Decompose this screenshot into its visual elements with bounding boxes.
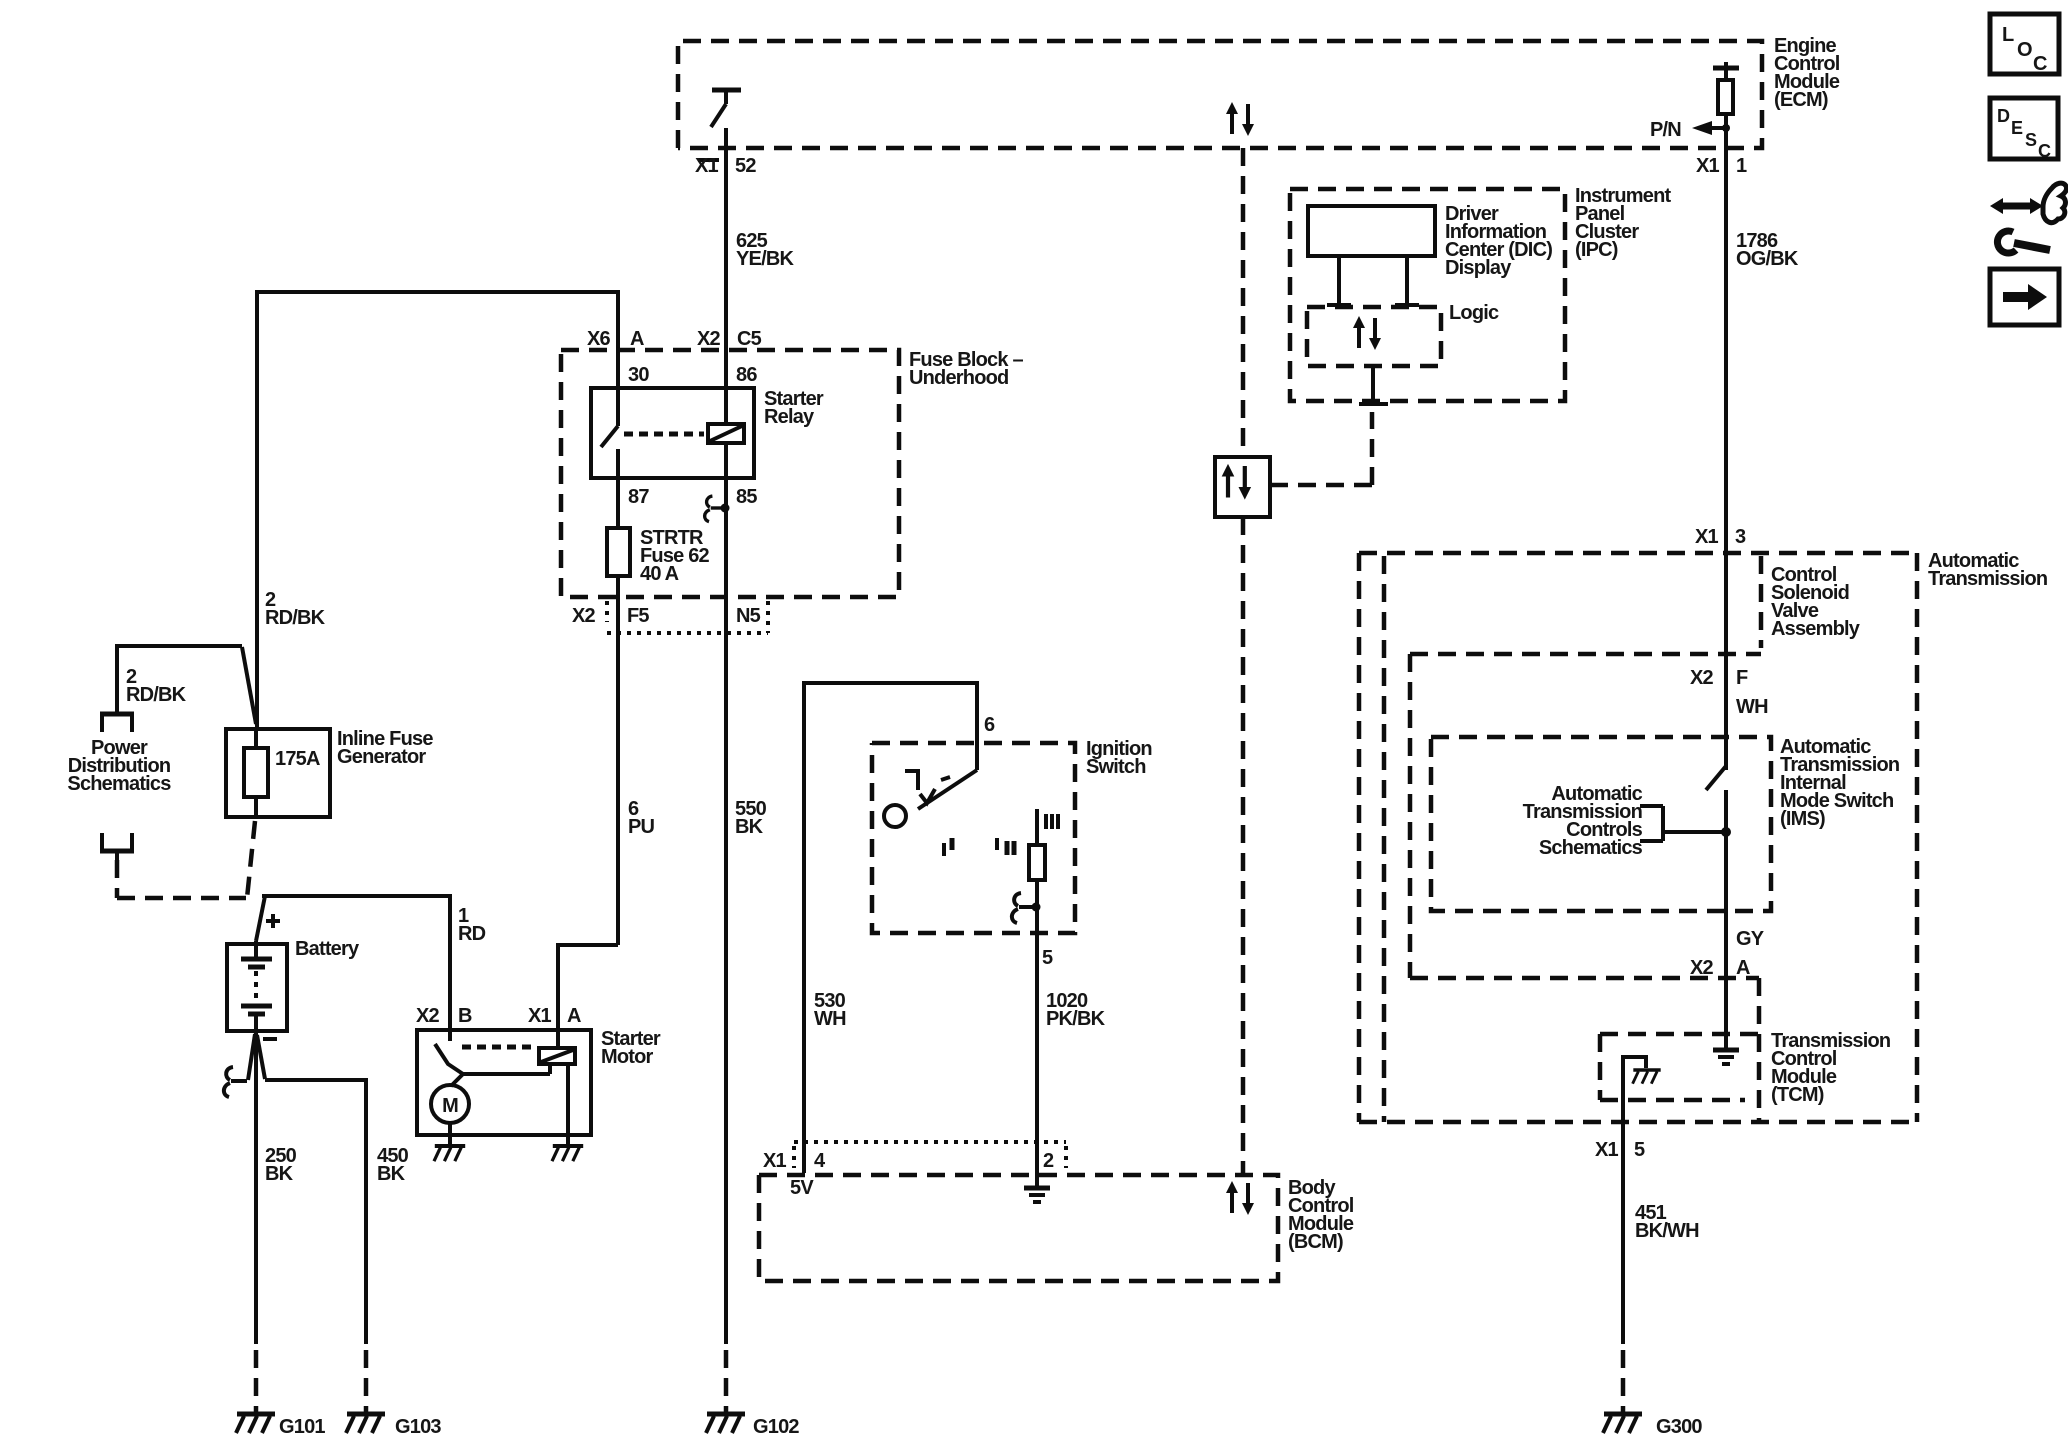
Ignition Switch label [1086, 738, 1152, 778]
svg-text:C: C [2033, 53, 2047, 75]
wire relay 85 to N5 [724, 508, 728, 633]
svg-text:(TCM): (TCM) [1771, 1084, 1824, 1106]
svg-text:M: M [442, 1095, 458, 1117]
starter solenoid contact switch [435, 1030, 463, 1074]
svg-text:Schematics: Schematics [67, 773, 171, 795]
diagnostic tool icon [1990, 183, 2067, 253]
svg-text:B: B [458, 1005, 472, 1027]
svg-text:Schematics: Schematics [1539, 837, 1643, 859]
svg-text:A: A [567, 1005, 581, 1027]
inline fuse generator box [226, 729, 330, 817]
DIC label [1445, 203, 1552, 279]
ECM label [1774, 35, 1840, 111]
wire 451 BK/WH TCM to G300 [1621, 1122, 1625, 1412]
wire 2 RD/BK feed (battery to fuse block X6-A) [257, 292, 618, 729]
serial data dashed branch to IPC logic [1270, 412, 1372, 485]
svg-text:52: 52 [735, 155, 756, 177]
splice curl in ignition switch [1012, 893, 1035, 923]
svg-text:(IMS): (IMS) [1780, 808, 1825, 830]
svg-text:X1: X1 [1696, 155, 1720, 177]
serial data arrows inside logic [1353, 316, 1381, 350]
ground G102 [706, 1414, 799, 1438]
node X2 A connector labels [1690, 957, 1750, 979]
node X1 A connector labels [528, 1005, 581, 1027]
DIC display box [1308, 206, 1435, 256]
battery negative split junction [248, 1034, 265, 1080]
starter solenoid ground [552, 1064, 583, 1161]
svg-text:1: 1 [1736, 155, 1747, 177]
svg-text:(ECM): (ECM) [1774, 89, 1828, 111]
svg-text:X2: X2 [572, 605, 596, 627]
ignition switch arm [918, 770, 977, 809]
svg-text:D: D [1997, 106, 2010, 126]
svg-text:GY: GY [1736, 928, 1765, 950]
svg-text:Display: Display [1445, 257, 1512, 279]
svg-text:L: L [2002, 24, 2014, 46]
starter motor box [417, 1030, 591, 1135]
Fuse Block label [909, 349, 1023, 389]
battery [227, 941, 287, 1031]
ignition contact resistor [1029, 809, 1045, 1187]
svg-text:RD: RD [458, 923, 486, 945]
svg-text:F5: F5 [627, 605, 649, 627]
flag wire label 2 RD/BK [126, 666, 187, 706]
svg-text:RD/BK: RD/BK [126, 684, 187, 706]
wire label 530 WH [814, 990, 846, 1030]
wire label 625 YE/BK [736, 230, 794, 270]
node X1 3 connector labels [1695, 526, 1746, 548]
svg-text:X1: X1 [1595, 1139, 1619, 1161]
wire label 6 PU [628, 798, 655, 838]
splice curl at relay pin 85 [705, 496, 725, 521]
wire 625 YE/BK from ECM switch to relay coil [724, 128, 728, 424]
Starter Relay label [764, 388, 824, 428]
DIC display legs [1327, 256, 1419, 305]
Automatic Transmission label [1928, 550, 2047, 590]
splice curl at battery negative [224, 1067, 247, 1097]
svg-text:OG/BK: OG/BK [1736, 248, 1799, 270]
BCM label [1288, 1177, 1354, 1253]
svg-text:Switch: Switch [1086, 756, 1146, 778]
connector X2 F5 N5 labels [572, 605, 761, 627]
Inline Fuse Generator label [337, 728, 433, 768]
connector tick X1 52 [698, 158, 719, 162]
svg-text:X2: X2 [416, 1005, 440, 1027]
svg-text:30: 30 [628, 364, 649, 386]
svg-text:N5: N5 [736, 605, 761, 627]
ignition position mark I [944, 838, 952, 856]
svg-text:X6: X6 [587, 328, 611, 350]
ignition switch dashed box [872, 743, 1075, 933]
svg-text:BK: BK [735, 816, 764, 838]
power distribution return half-connector [100, 833, 134, 860]
starter contact linkage [451, 1065, 550, 1086]
transmission middle connector dashed box [1410, 654, 1759, 1122]
svg-text:Motor: Motor [601, 1046, 654, 1068]
wire 550 BK N5 to G102 [724, 633, 728, 1412]
wire 1 RD battery to starter B [262, 896, 450, 1030]
svg-text:Underhood: Underhood [909, 367, 1008, 389]
wire label 1020 PK/BK [1046, 990, 1106, 1030]
ground G101 [236, 1414, 325, 1438]
control solenoid valve assembly dashed edges [1410, 556, 1761, 654]
svg-text:Relay: Relay [764, 406, 815, 428]
svg-text:BK/WH: BK/WH [1635, 1220, 1699, 1242]
serial data junction box with arrows [1215, 457, 1270, 517]
svg-text:S: S [2025, 130, 2037, 150]
svg-text:2: 2 [1043, 1150, 1054, 1172]
svg-text:PU: PU [628, 816, 655, 838]
STRTR fuse label [640, 527, 710, 585]
wire label 250 BK [265, 1145, 297, 1185]
svg-text:3: 3 [1735, 526, 1746, 548]
wire label 550 BK [735, 798, 767, 838]
wire 530 WH feed to ignition switch [804, 683, 977, 1173]
ignition switch pivot circle [884, 805, 906, 827]
starter motor ground [434, 1123, 465, 1161]
svg-text:RD/BK: RD/BK [265, 607, 326, 629]
svg-text:X2: X2 [697, 328, 721, 350]
svg-text:Assembly: Assembly [1771, 618, 1861, 640]
svg-text:85: 85 [736, 486, 757, 508]
TCM internal ground bend [1623, 1057, 1661, 1122]
svg-text:G103: G103 [395, 1416, 441, 1438]
internal mode switch IMS dashed box [1431, 737, 1771, 911]
svg-text:F: F [1736, 667, 1748, 689]
battery positive diagonal and plus sign [256, 896, 280, 941]
chassis ground inside BCM [1024, 1188, 1050, 1202]
svg-text:X1: X1 [1695, 526, 1719, 548]
node X2 C5 connector labels [697, 328, 762, 350]
P/N arrow label inside ECM [1650, 119, 1730, 141]
wire label 450 BK [377, 1145, 409, 1185]
relay actuation dashed line [624, 432, 704, 437]
svg-text:WH: WH [1736, 696, 1768, 718]
svg-text:G300: G300 [1656, 1416, 1702, 1438]
svg-text:Battery: Battery [295, 938, 360, 960]
svg-text:E: E [2011, 118, 2023, 138]
dashed link from power distribution to battery positive [117, 821, 255, 898]
STRTR fuse 62 [607, 528, 630, 945]
svg-text:PK/BK: PK/BK [1046, 1008, 1106, 1030]
wire 6 PU to starter solenoid [558, 945, 618, 1030]
svg-text:87: 87 [628, 486, 649, 508]
wire label 2 RD/BK [265, 589, 326, 629]
node X1 5 connector labels [1595, 1139, 1645, 1161]
svg-text:G101: G101 [279, 1416, 325, 1438]
transmission control module TCM dashed box [1600, 1034, 1759, 1100]
svg-text:X1: X1 [695, 155, 719, 177]
IMS label [1780, 736, 1899, 830]
chassis ground at IMS sense line [1713, 1050, 1739, 1064]
logic serial data stub [1359, 366, 1388, 404]
svg-text:YE/BK: YE/BK [736, 248, 794, 270]
svg-text:5: 5 [1634, 1139, 1645, 1161]
svg-text:A: A [1736, 957, 1750, 979]
engine control module ECM dashed box [678, 41, 1762, 148]
BCM X1 connector dotted strip [794, 1142, 1066, 1168]
node X6 A connector labels [587, 328, 644, 350]
svg-text:5: 5 [1042, 947, 1053, 969]
ground G103 [346, 1414, 441, 1438]
svg-text:Transmission: Transmission [1928, 568, 2047, 590]
logic dashed box [1307, 307, 1441, 366]
svg-text:BK: BK [377, 1163, 406, 1185]
node X1 1 connector labels [1696, 155, 1747, 177]
body control module BCM dashed box [759, 1175, 1278, 1281]
instrument panel cluster IPC dashed box [1290, 189, 1565, 401]
svg-text:WH: WH [814, 1008, 846, 1030]
next page arrow icon [1990, 269, 2059, 325]
svg-text:C5: C5 [737, 328, 762, 350]
ignition position mark II [997, 838, 1014, 855]
resistor (pull-up) inside ECM [1713, 62, 1739, 148]
svg-text:(BCM): (BCM) [1288, 1231, 1343, 1253]
LOC icon box [1990, 14, 2059, 75]
svg-text:G102: G102 [753, 1416, 799, 1438]
ATCS bracket reference [1640, 806, 1731, 841]
svg-text:86: 86 [736, 364, 757, 386]
IPC label [1575, 185, 1671, 261]
starter solenoid actuation dashed line [462, 1045, 536, 1050]
serial data dashed line ECM to splice box [1241, 148, 1246, 457]
wire label 1786 OG/BK [1736, 230, 1799, 270]
ground G300 [1603, 1414, 1702, 1438]
svg-text:5V: 5V [790, 1177, 814, 1199]
IMS switch arm [1706, 766, 1726, 1048]
svg-text:X2: X2 [1690, 667, 1714, 689]
ignition lock linkage [905, 771, 950, 803]
fuse block underhood dashed box [561, 350, 899, 597]
node X2 F connector labels [1690, 667, 1748, 689]
switch S inside ECM (crank voltage) [711, 90, 741, 127]
node X1 52 connector labels [695, 155, 756, 177]
TCM label [1771, 1030, 1890, 1106]
serial data dashed line to BCM [1241, 517, 1246, 1175]
svg-text:BK: BK [265, 1163, 294, 1185]
Control Solenoid Valve Assembly label [1771, 564, 1861, 640]
DESC icon box [1990, 98, 2058, 161]
ignition position mark III [1046, 814, 1058, 829]
svg-text:X1: X1 [528, 1005, 552, 1027]
svg-text:Generator: Generator [337, 746, 426, 768]
wire label 451 BK/WH [1635, 1202, 1699, 1242]
BCM connector labels X1 4 2 [763, 1150, 1054, 1172]
svg-text:A: A [630, 328, 644, 350]
svg-text:175A: 175A [275, 748, 320, 770]
svg-text:4: 4 [814, 1150, 826, 1172]
Automatic Transmission Controls Schematics label [1523, 783, 1643, 859]
wire 450 BK to G103 [265, 1080, 366, 1412]
relay coil [708, 424, 744, 508]
svg-text:Logic: Logic [1449, 302, 1499, 324]
relay switch arm [601, 390, 618, 528]
svg-text:40 A: 40 A [640, 563, 679, 585]
svg-text:6: 6 [984, 714, 995, 736]
wire label 1 RD [458, 905, 486, 945]
starter relay box [591, 388, 754, 478]
battery minus sign [263, 1037, 277, 1041]
wire 1786 OG/BK ECM to transmission [1724, 148, 1728, 770]
power distribution off-page flag [100, 646, 256, 732]
serial data arrows inside BCM [1226, 1181, 1254, 1215]
fuse block X2 connector dotted box [607, 601, 768, 633]
Power Distribution Schematics label [67, 737, 171, 795]
svg-text:X2: X2 [1690, 957, 1714, 979]
svg-text:O: O [2017, 39, 2033, 61]
svg-text:X1: X1 [763, 1150, 787, 1172]
svg-text:C: C [2038, 141, 2051, 161]
starter solenoid coil [539, 1030, 575, 1064]
serial data arrows inside ECM [1226, 102, 1254, 136]
svg-text:(IPC): (IPC) [1575, 239, 1618, 261]
node X2 B connector labels [416, 1005, 472, 1027]
wire 250 BK battery negative to G101 [254, 1031, 258, 1412]
Starter Motor label [601, 1028, 661, 1068]
starter motor M [431, 1085, 469, 1123]
automatic transmission outer dashed box [1359, 553, 1917, 1122]
svg-text:P/N: P/N [1650, 119, 1681, 141]
